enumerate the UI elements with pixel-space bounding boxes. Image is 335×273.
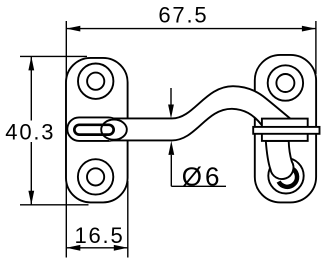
dimension 40.3 line upper segment [30, 56, 32, 120]
hook rod S-shaped arm fill [109, 86, 292, 140]
dimension 40.3 extension line top [20, 55, 87, 57]
diameter 6 lower arrowhead [168, 141, 174, 155]
keeper block on right plate [262, 119, 308, 141]
left plate bottom screw hole inner [87, 168, 104, 185]
left plate top screw hole inner [87, 73, 104, 90]
dimension 40.3 extension line bottom [20, 204, 89, 206]
staple boss outline on left plate [67, 117, 120, 140]
staple slot (thick inner stadium) [74, 125, 113, 135]
dimension 67.5 extension line right [315, 21, 317, 74]
right mounting plate [255, 55, 316, 203]
dimension 67.5 line [66, 28, 316, 30]
svg-text:16.5: 16.5 [74, 223, 124, 248]
dimension 67.5 extension line left [65, 21, 67, 78]
dimension 16.5 left arrowhead [66, 245, 80, 251]
dimension 16.5 right arrowhead [114, 245, 128, 251]
svg-text:67.5: 67.5 [158, 3, 208, 28]
left mounting plate [66, 58, 128, 203]
hook rod top edge [112, 86, 291, 119]
hook shank dropping to catch [266, 141, 294, 179]
diameter 6 leader underline [171, 185, 226, 187]
hook eye ring at staple [101, 120, 127, 140]
right plate top screw hole inner [276, 74, 294, 92]
right plate top screw hole outer [268, 65, 303, 100]
dimension 40.3 top arrowhead [28, 56, 34, 70]
diameter 6 leader vertical line [170, 155, 172, 186]
diameter 6 upper arrow line [170, 88, 172, 105]
dimension 16.5 extension line right [127, 181, 129, 258]
dimension 40.3 line lower segment [30, 142, 32, 205]
diameter 6 upper arrowhead [168, 105, 174, 119]
dimension 16.5 line [66, 247, 128, 249]
left plate bottom screw hole outer [78, 159, 113, 194]
hook end eye ring (thick arc) [279, 169, 297, 187]
dimension 67.5 left arrowhead [66, 26, 80, 32]
dimension 67.5 right arrowhead [302, 26, 316, 32]
right plate bottom screw hole outer [268, 158, 303, 193]
dimension 16.5 extension line left [65, 181, 67, 258]
dimension 40.3 bottom arrowhead [28, 191, 34, 205]
left plate top screw hole outer [78, 63, 113, 98]
hook rod bottom edge [112, 109, 262, 141]
svg-text:Ø6: Ø6 [182, 161, 223, 191]
svg-text:40.3: 40.3 [5, 119, 55, 144]
keeper strip bar [253, 127, 319, 134]
